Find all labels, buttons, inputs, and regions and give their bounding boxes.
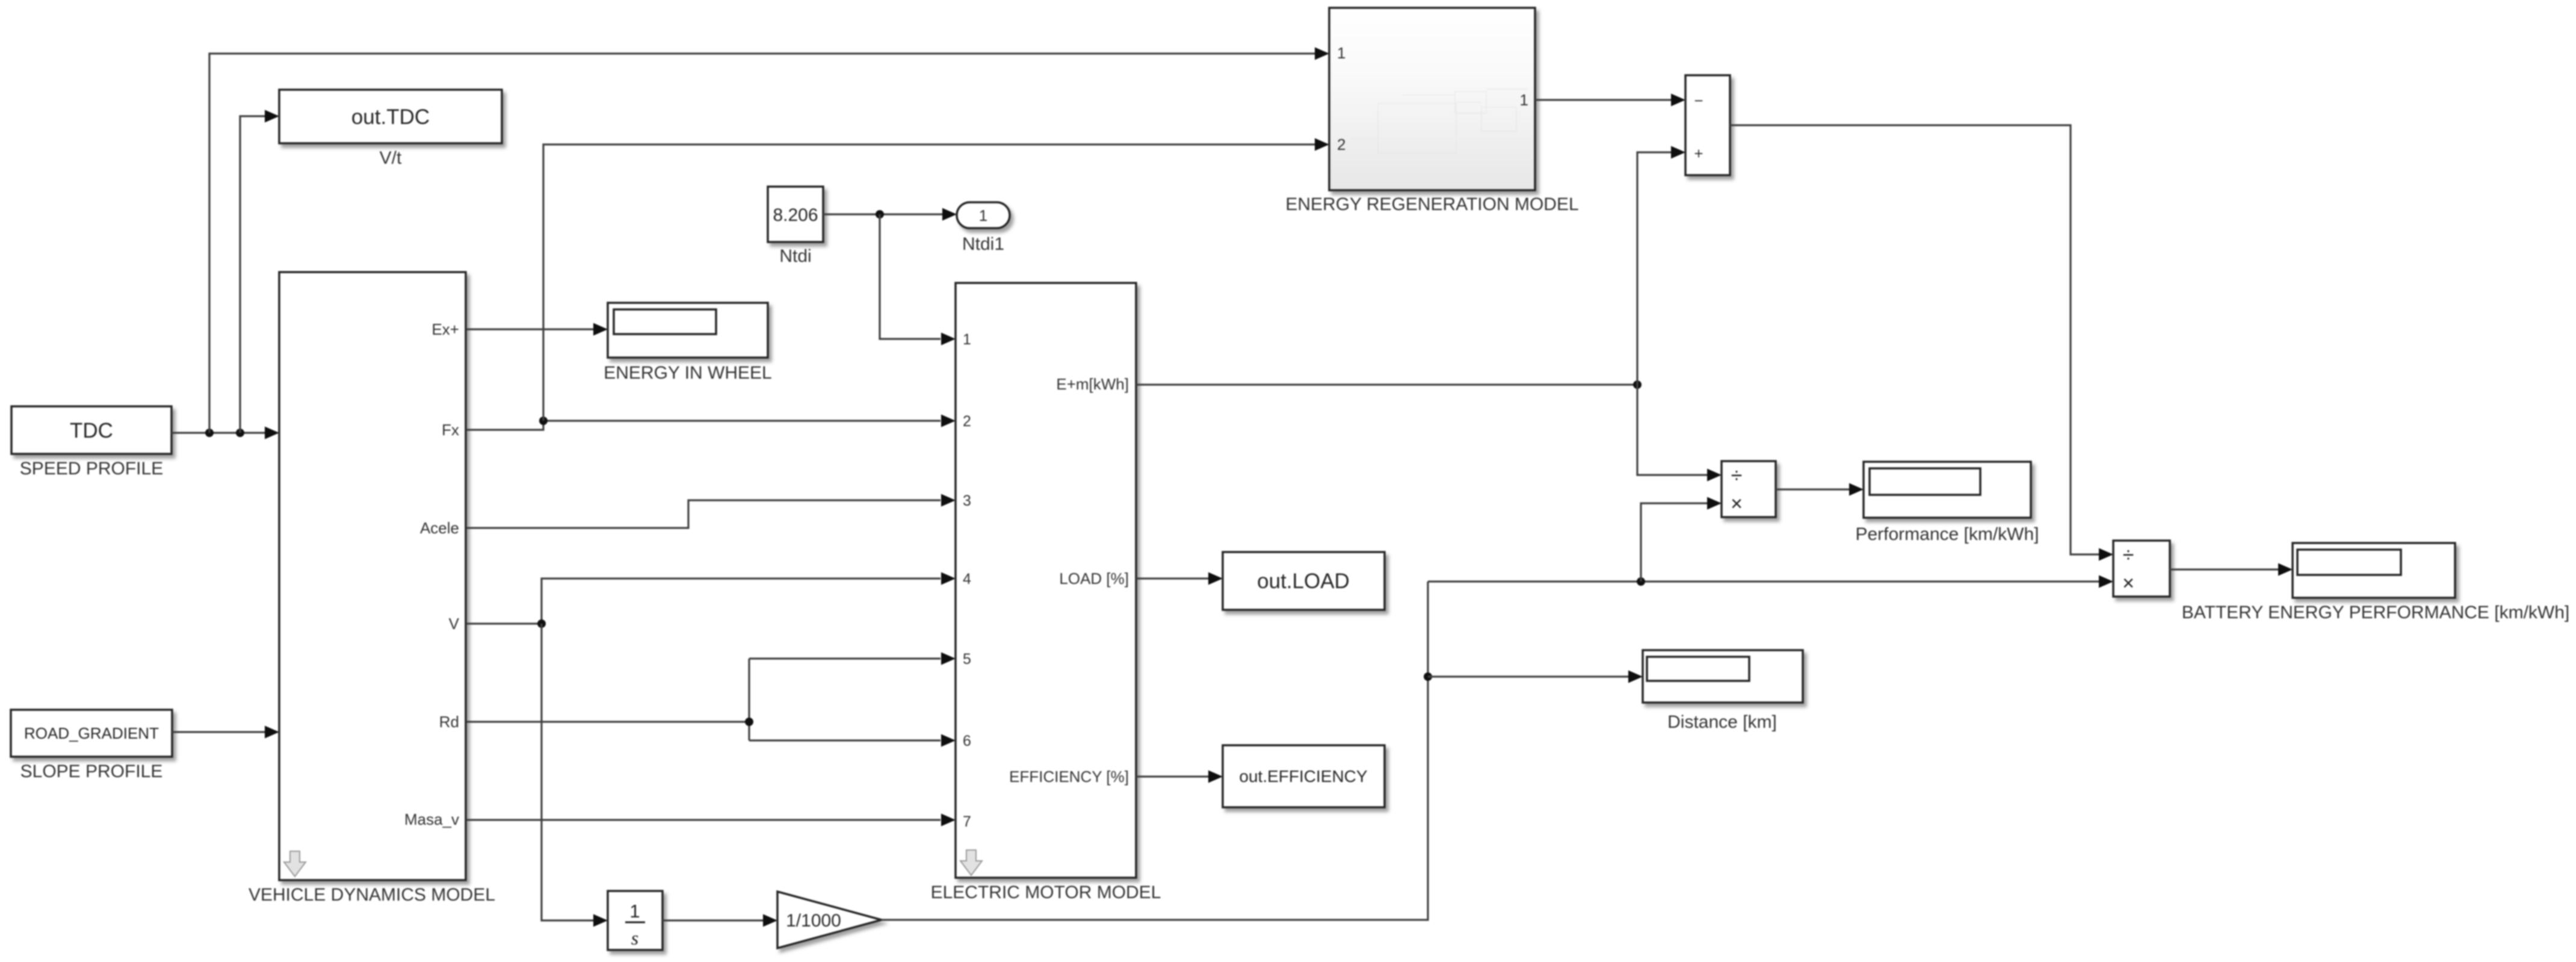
svg-text:1/1000: 1/1000 (786, 911, 841, 931)
svg-text:×: × (1731, 492, 1743, 515)
svg-text:out.EFFICIENCY: out.EFFICIENCY (1239, 767, 1367, 786)
wire V branch to integrator 1/s (542, 624, 608, 927)
wire LOAD to out.LOAD (1136, 573, 1223, 585)
wire distance branch to Performance divide times input (1641, 497, 1722, 582)
svg-text:Fx: Fx (442, 421, 459, 439)
wire sum output to battery divide input (1730, 125, 2113, 561)
svg-text:V: V (449, 615, 460, 633)
wire E+m branch to Performance divide input (1637, 385, 1722, 482)
svg-text:s: s (631, 927, 638, 949)
svg-text:Rd: Rd (439, 713, 459, 731)
display BATTERY ENERGY PERFORMANCE [km/kWh] (2182, 543, 2570, 622)
wire distance branch to Distance display (1428, 671, 1643, 683)
wire 1/s output to gain 1/1000 (663, 914, 777, 927)
svg-text:8.206: 8.206 (773, 205, 818, 225)
svg-text:Distance [km]: Distance [km] (1667, 712, 1777, 732)
svg-text:VEHICLE DYNAMICS MODEL: VEHICLE DYNAMICS MODEL (249, 885, 495, 905)
svg-text:Masa_v: Masa_v (404, 810, 459, 828)
wire V to ELECTRIC MOTOR MODEL input 4 (466, 573, 956, 628)
svg-text:4: 4 (963, 571, 971, 588)
svg-text:5: 5 (963, 651, 971, 668)
wire 8.206 branch to ELECTRIC MOTOR MODEL input 1 (880, 214, 956, 346)
constant block 8.206 (Ntdi) (768, 187, 823, 266)
source block TDC (SPEED PROFILE) (11, 406, 171, 479)
svg-text:3: 3 (963, 492, 971, 509)
svg-text:Acele: Acele (420, 519, 459, 537)
svg-text:TDC: TDC (70, 419, 113, 442)
wire Rd to ELECTRIC MOTOR MODEL inputs 5 and 6 (466, 653, 956, 747)
svg-text:÷: ÷ (1731, 464, 1743, 487)
wire TDC branch to out.TDC (240, 110, 279, 433)
svg-text:1: 1 (979, 206, 987, 225)
wire ENERGY REGENERATION MODEL output to sum minus input (1535, 94, 1685, 107)
wire TDC output to VEHICLE DYNAMICS MODEL input (171, 427, 279, 439)
svg-text:Ntdi1: Ntdi1 (962, 234, 1004, 254)
wire gain output distance signal (882, 582, 1432, 920)
subsystem VEHICLE DYNAMICS MODEL (249, 272, 495, 905)
source block ROAD_GRADIENT (SLOPE PROFILE) (11, 710, 172, 781)
wire Masa_v to ELECTRIC MOTOR MODEL input 7 (466, 814, 956, 827)
wire ROAD_GRADIENT to VEHICLE DYNAMICS MODEL input (172, 726, 279, 739)
outport Ntdi1 (957, 202, 1010, 254)
svg-text:1: 1 (629, 901, 640, 922)
divide block (Performance) (1722, 461, 1776, 517)
svg-text:SPEED PROFILE: SPEED PROFILE (20, 459, 163, 479)
svg-text:SLOPE PROFILE: SLOPE PROFILE (20, 762, 163, 781)
svg-text:1: 1 (1337, 44, 1345, 62)
svg-text:ENERGY IN WHEEL: ENERGY IN WHEEL (604, 363, 772, 383)
svg-text:1: 1 (963, 331, 971, 348)
svg-text:EFFICIENCY [%]: EFFICIENCY [%] (1009, 768, 1129, 786)
display ENERGY IN WHEEL (604, 303, 772, 383)
svg-text:Performance [km/kWh]: Performance [km/kWh] (1855, 524, 2039, 544)
wire 8.206 to outport Ntdi1 (823, 208, 957, 221)
svg-text:+: + (1694, 144, 1703, 163)
svg-text:Ntdi: Ntdi (779, 246, 811, 266)
gain block 1/1000 (777, 892, 882, 948)
wire divide output to BATTERY display (2170, 563, 2293, 576)
svg-text:7: 7 (963, 813, 971, 830)
svg-text:ROAD_GRADIENT: ROAD_GRADIENT (24, 724, 159, 742)
wire Fx to ELECTRIC MOTOR MODEL input 2 (466, 415, 956, 430)
svg-text:out.LOAD: out.LOAD (1257, 569, 1350, 593)
wire E+m branch to sum plus input (1637, 146, 1685, 385)
svg-text:Ex+: Ex+ (431, 320, 459, 338)
subsystem ENERGY REGENERATION MODEL (1285, 8, 1578, 214)
wire E+m[kWh] output to junction (1136, 380, 1642, 389)
display Performance [km/kWh] (1855, 462, 2039, 544)
divide block (Battery) (2113, 541, 2170, 597)
wire divide output to Performance display (1776, 483, 1864, 496)
svg-text:1: 1 (1520, 91, 1528, 109)
integrator block 1/s (608, 891, 663, 950)
svg-text:E+m[kWh]: E+m[kWh] (1056, 375, 1129, 393)
block out.TDC (V/t) (279, 90, 502, 168)
svg-text:÷: ÷ (2123, 544, 2134, 566)
block out.EFFICIENCY (1223, 745, 1385, 807)
block out.LOAD (1223, 552, 1385, 610)
svg-text:V/t: V/t (380, 148, 402, 168)
wire Fx branch to ENERGY REGENERATION MODEL input 2 (543, 138, 1329, 421)
subsystem ELECTRIC MOTOR MODEL (931, 283, 1161, 902)
wire EFFICIENCY to out.EFFICIENCY (1136, 771, 1223, 783)
wire Acele to ELECTRIC MOTOR MODEL input 3 (466, 494, 956, 529)
display Distance [km] (1643, 650, 1803, 732)
wire Ex+ to ENERGY IN WHEEL display (466, 323, 608, 336)
svg-text:out.TDC: out.TDC (351, 105, 430, 129)
svg-text:ELECTRIC MOTOR MODEL: ELECTRIC MOTOR MODEL (931, 883, 1161, 902)
svg-text:2: 2 (1337, 135, 1345, 154)
wire TDC branch to ENERGY REGENERATION MODEL input 1 (209, 48, 1329, 433)
svg-text:BATTERY ENERGY PERFORMANCE [km: BATTERY ENERGY PERFORMANCE [km/kWh] (2182, 603, 2570, 622)
svg-text:LOAD [%]: LOAD [%] (1059, 569, 1129, 588)
sum block (1685, 75, 1730, 175)
wire distance to battery divide times input (1428, 576, 2113, 588)
svg-text:2: 2 (963, 413, 971, 430)
svg-text:6: 6 (963, 733, 971, 749)
svg-text:×: × (2122, 572, 2134, 595)
svg-text:ENERGY REGENERATION MODEL: ENERGY REGENERATION MODEL (1285, 194, 1578, 214)
svg-text:−: − (1694, 92, 1703, 110)
